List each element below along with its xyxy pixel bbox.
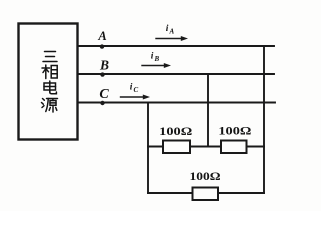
- svg-text:A: A: [97, 29, 106, 43]
- svg-text:B: B: [154, 55, 160, 63]
- svg-text:B: B: [99, 58, 109, 73]
- svg-text:i: i: [166, 24, 169, 34]
- svg-text:C: C: [99, 87, 109, 102]
- svg-text:i: i: [151, 52, 154, 62]
- svg-text:100Ω: 100Ω: [218, 126, 251, 138]
- svg-text:C: C: [134, 86, 139, 94]
- svg-text:100Ω: 100Ω: [159, 126, 192, 138]
- svg-text:A: A: [169, 28, 175, 36]
- svg-text:i: i: [130, 83, 133, 93]
- svg-text:100Ω: 100Ω: [190, 169, 221, 183]
